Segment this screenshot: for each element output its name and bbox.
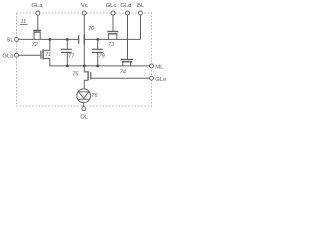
- terminal node GLe: [150, 76, 154, 80]
- wire: drain lead of transistor 75: [84, 66, 88, 72]
- junction dot at (97.7,65.9): [96, 65, 99, 68]
- transistor 73: [107, 32, 118, 49]
- svg-text:Vc: Vc: [81, 3, 88, 9]
- leader underline for 11: [20, 24, 28, 26]
- svg-text:SL: SL: [6, 38, 14, 44]
- svg-text:76: 76: [91, 93, 98, 99]
- label 11: [21, 19, 27, 25]
- junction dot at (67.3,65.9): [66, 65, 69, 68]
- terminal node OL: [82, 107, 86, 111]
- svg-text:GLe: GLe: [155, 77, 166, 83]
- terminal node GLb: [15, 53, 19, 57]
- wire: storage node line from 71 to ML terminal: [50, 65, 150, 67]
- terminal node Vc: [82, 11, 86, 15]
- wire: source of 70 down to storage line: [83, 45, 85, 66]
- wire: gate of 75 to GLe terminal: [91, 77, 150, 79]
- wire: SL rail (node A) from SL terminal to gate of 70: [19, 38, 79, 40]
- junction dot at (67.3,39.4): [66, 38, 69, 41]
- svg-text:GLa: GLa: [31, 3, 43, 9]
- svg-text:72: 72: [32, 42, 38, 48]
- transistor 70: [79, 26, 95, 45]
- junction dot at (84.3,65.9): [83, 65, 86, 68]
- wire: source of 71 down to storage line: [49, 58, 51, 66]
- wire: GLa gate line down to transistor 72: [37, 15, 39, 30]
- svg-text:74: 74: [120, 69, 126, 75]
- capacitor 77: [61, 39, 75, 66]
- svg-text:BL: BL: [137, 3, 145, 9]
- wire: source of 75 down to light emitting element: [84, 80, 88, 88]
- wire: drain lead of transistor 71: [44, 39, 50, 50]
- wire: cathode of 76 down to OL terminal: [83, 103, 85, 107]
- light emitting element 76 (diode in circle): [77, 89, 99, 103]
- svg-text:OL: OL: [80, 114, 89, 120]
- terminal node SL: [15, 37, 19, 41]
- junction dot at (97.7,39.4): [96, 38, 99, 41]
- svg-text:70: 70: [88, 26, 95, 32]
- transistor 74: [120, 60, 133, 76]
- junction dot at (49.8,39.4): [48, 38, 51, 41]
- wire: GLc gate line down to transistor 73: [112, 15, 114, 31]
- terminal node GLd: [126, 11, 130, 15]
- transistor 71: [41, 49, 51, 59]
- wire: BL line down to rail: [140, 15, 142, 39]
- svg-text:79: 79: [99, 53, 105, 59]
- wire: GLd gate line down to transistor 74: [127, 15, 129, 59]
- terminal node GLc: [111, 11, 115, 15]
- pixel boundary 11 (dashed box): [17, 13, 152, 106]
- svg-text:71: 71: [45, 52, 51, 58]
- svg-text:GLb: GLb: [2, 54, 14, 60]
- capacitor 79: [92, 39, 105, 66]
- wire: Vc supply line down to transistor 70: [83, 15, 85, 34]
- svg-text:75: 75: [72, 72, 79, 78]
- terminal node ML: [150, 64, 154, 68]
- svg-text:GLc: GLc: [106, 3, 117, 9]
- svg-text:GLd: GLd: [120, 3, 131, 9]
- terminal node GLa: [36, 11, 40, 15]
- svg-text:77: 77: [68, 53, 75, 59]
- wire: rail node B from transistor 70 to BL corner: [85, 38, 141, 40]
- transistor 75: [72, 71, 91, 80]
- svg-text:73: 73: [108, 42, 115, 48]
- transistor 72: [32, 30, 42, 48]
- wire: GLb gate line to transistor 71: [19, 54, 41, 56]
- terminal node BL: [139, 11, 143, 15]
- svg-text:ML: ML: [155, 64, 164, 70]
